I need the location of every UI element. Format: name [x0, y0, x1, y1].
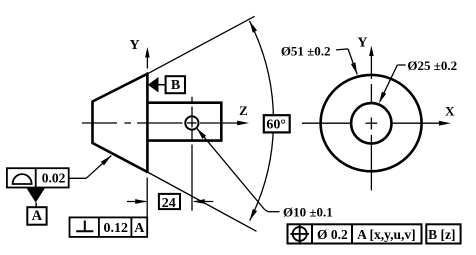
wire: vertical centerline / Y axis right view [369, 46, 374, 191]
svg-text:A: A [32, 208, 43, 224]
hole circle [185, 116, 198, 129]
small circle Ø25 [351, 103, 391, 143]
svg-text:Z: Z [239, 103, 248, 118]
wire: lower cone extension line [147, 172, 256, 231]
wire: hole vertical centerline and extension [191, 97, 193, 211]
svg-text:Ø51 ±0.2: Ø51 ±0.2 [281, 43, 331, 58]
svg-text:B: B [171, 78, 180, 93]
svg-text:Ø 0.2: Ø 0.2 [317, 227, 348, 242]
dimension 24: arrows and extension line [127, 178, 213, 218]
wire: Y axis left view with arrow [145, 47, 150, 74]
feature control frame 1: profile 0.02 [7, 168, 69, 187]
svg-text:Y: Y [357, 35, 367, 50]
big circle Ø51 [321, 75, 422, 171]
feature control frame 2: perpendicularity 0.12 A [70, 217, 148, 237]
svg-text:Ø10 ±0.1: Ø10 ±0.1 [283, 205, 333, 220]
value label Ø51 ±0.2 with leader [281, 43, 357, 74]
svg-text:60°: 60° [266, 117, 286, 132]
svg-text:A [x,y,u,v]: A [x,y,u,v] [357, 227, 416, 242]
svg-text:X: X [445, 104, 455, 119]
center cross right view [366, 118, 378, 130]
wire: upper cone extension line [147, 16, 254, 74]
cylinder outline [147, 103, 221, 141]
leader to hole: Ø10 [197, 128, 280, 212]
svg-text:Y: Y [129, 38, 139, 53]
wire: horizontal centerline / Z axis [82, 121, 249, 126]
feature control frame 3b: datum B reference box [426, 224, 460, 243]
feature control frame 3: position [288, 224, 422, 243]
leader from FCF1 to cone surface [69, 156, 112, 179]
svg-text:Ø25 ±0.2: Ø25 ±0.2 [407, 58, 457, 73]
wire: horizontal centerline / X axis [302, 121, 451, 126]
svg-text:B [z]: B [z] [428, 227, 455, 242]
60 degree boxed label [264, 115, 290, 132]
svg-text:24: 24 [162, 196, 176, 211]
value label Ø25 ±0.2 with leader [379, 58, 457, 104]
60 degree dimension arc with arrows [249, 21, 273, 221]
svg-text:0.02: 0.02 [42, 171, 66, 186]
datum B symbol: filled triangle, stem, boxed B [148, 76, 185, 93]
boxed basic dimension 24 [159, 194, 180, 211]
datum A symbol: filled triangle, stem, boxed A [26, 188, 46, 225]
cone frustum outline [93, 73, 148, 173]
svg-text:0.12: 0.12 [103, 221, 128, 236]
svg-text:A: A [134, 221, 145, 236]
